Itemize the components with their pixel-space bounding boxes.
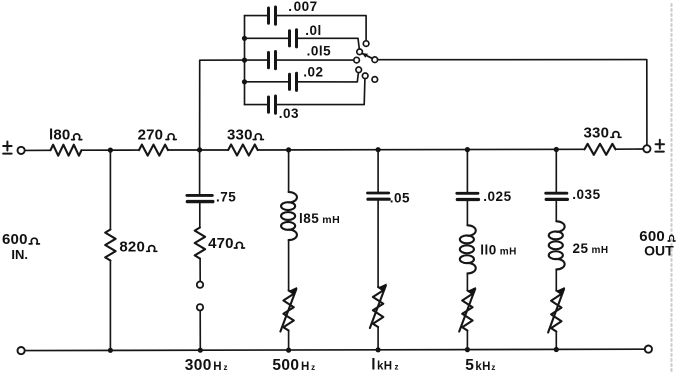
- capacitor .05: [368, 193, 390, 199]
- output terminal (hot): [643, 145, 650, 152]
- switch contact 1 (.007): [363, 41, 369, 47]
- switch contact 3 (.015): [354, 57, 360, 63]
- wire rheostat to bottom bus: [555, 332, 557, 350]
- junction bottom bus / .035: [554, 347, 559, 352]
- wire node B up to capacitor bank (.015 row): [200, 60, 245, 150]
- label 820Ω: [119, 238, 156, 255]
- resistor 820Ω: [105, 230, 115, 261]
- svg-text:.02: .02: [303, 65, 323, 80]
- wire node C down to L185: [288, 150, 290, 192]
- inductor 25mH: [549, 221, 565, 269]
- wire rheostat to bottom bus: [377, 327, 379, 350]
- wire R820 to bottom bus: [109, 261, 111, 351]
- svg-text:l80: l80: [49, 127, 70, 144]
- wire C.05 to rheostat: [377, 199, 379, 287]
- resistor 330Ω (series): [228, 145, 258, 156]
- svg-text:.035: .035: [572, 187, 600, 202]
- wire .01 row left: [245, 37, 289, 39]
- wire bottom bus: [25, 349, 645, 350]
- junction node C (500Hz tap): [286, 147, 291, 152]
- junction bottom bus / 500Hz: [286, 348, 291, 353]
- wire C.75 to R470: [199, 202, 201, 228]
- wire .03 row left: [245, 104, 268, 106]
- wire switch pole to output terminal (top bypass): [378, 60, 647, 146]
- junction node E (5kHz tap): [465, 147, 470, 152]
- switch pole: [372, 57, 378, 63]
- wire rheostat to bottom bus: [288, 331, 290, 351]
- switch contact 2 (.01): [357, 49, 363, 55]
- rheostat (5kHz): [459, 287, 476, 332]
- resistor 180Ω: [51, 145, 82, 156]
- svg-text:330: 330: [227, 127, 253, 144]
- label 330Ω (series): [227, 127, 263, 144]
- inductor 185mH: [281, 192, 297, 240]
- wire L25 to rheostat: [555, 269, 557, 290]
- junction node F (.035 tap): [554, 147, 559, 152]
- open jack lower (300Hz): [197, 304, 203, 310]
- svg-text:.03: .03: [279, 106, 299, 121]
- open jack upper (300Hz): [197, 282, 203, 288]
- wire .01 row right, down to switch contact 2: [298, 38, 360, 49]
- svg-text:IN.: IN.: [11, 247, 28, 262]
- svg-text:.0l: .0l: [305, 23, 322, 38]
- svg-text:600: 600: [2, 231, 28, 248]
- label 600Ω IN: [2, 231, 28, 262]
- capacitor .015: [269, 52, 276, 69]
- capacitor .75: [187, 195, 213, 201]
- resistor 470Ω: [195, 228, 205, 259]
- svg-text:470: 470: [208, 235, 234, 252]
- switch contact 5 (.03): [362, 73, 368, 79]
- junction bank bus / .015 row: [242, 58, 247, 63]
- label 180Ω: [49, 127, 82, 144]
- svg-text:.0l5: .0l5: [307, 44, 332, 59]
- junction bottom bus / 820: [108, 348, 113, 353]
- svg-text:820: 820: [119, 238, 145, 255]
- wire R330 output to output terminal: [616, 148, 644, 150]
- label 470Ω: [208, 235, 244, 252]
- wire .02 row right, up to switch contact 4: [298, 73, 359, 82]
- wire L185 to rheostat: [288, 240, 290, 291]
- wire R180 to node A: [82, 149, 140, 151]
- resistor 270Ω: [139, 145, 168, 156]
- svg-text:OUT: OUT: [644, 242, 674, 258]
- wire C.025 to L110: [466, 200, 468, 226]
- resistor 330Ω (output): [585, 144, 616, 155]
- input terminal (common): [18, 347, 25, 354]
- svg-text:330: 330: [584, 124, 610, 141]
- junction node D (1kHz tap): [376, 147, 381, 152]
- wire node E down to C.025: [466, 150, 468, 194]
- junction bottom bus / 5kHz: [465, 347, 470, 352]
- junction bottom bus / 300Hz: [198, 348, 203, 353]
- wire .007 row left: [245, 15, 268, 17]
- rheostat (1kHz): [370, 283, 387, 328]
- wire .02 row left: [245, 81, 289, 83]
- wire lower jack to bottom bus: [199, 311, 201, 351]
- switch wiper arm with arrow: [362, 53, 372, 58]
- wire input terminal to R 180: [25, 149, 51, 151]
- rheostat (500Hz): [280, 287, 297, 332]
- polarity mark ± at input: [3, 142, 11, 154]
- label 330Ω (output): [584, 124, 622, 141]
- svg-text:270: 270: [138, 127, 164, 144]
- label 600Ω OUT: [639, 228, 674, 258]
- wire .015 row left: [245, 59, 268, 61]
- switch spare contact: [372, 77, 378, 83]
- capacitor .035: [546, 193, 568, 199]
- wire .015 row right to switch contact 3: [277, 59, 354, 61]
- label 270Ω: [138, 127, 177, 144]
- inductor 110mH: [460, 225, 476, 273]
- wire R270 to node B: [168, 149, 228, 151]
- input terminal (hot): [18, 147, 25, 154]
- junction node B (300Hz tap): [197, 147, 202, 152]
- wire top bus node C to R330 output: [258, 148, 585, 151]
- rheostat (.035 branch): [548, 287, 565, 333]
- junction bank bus / .01 row: [242, 36, 247, 41]
- wire node F down to C.035: [555, 150, 557, 194]
- wire node D down to C.05: [377, 150, 379, 193]
- wire .007 row right, down to switch contact 1: [277, 16, 367, 41]
- junction node A (820Ω tap): [108, 148, 113, 153]
- svg-text:.05: .05: [390, 191, 410, 206]
- wire .03 row right, up to switch contact 5: [277, 79, 365, 105]
- junction bank bus / .02 row: [242, 79, 247, 84]
- switch contact 4 (.02): [356, 67, 362, 73]
- svg-text:.025: .025: [483, 189, 511, 204]
- capacitor .03: [269, 96, 276, 113]
- capacitor .02: [290, 73, 297, 90]
- wire C.035 to L25: [555, 200, 557, 222]
- output terminal (common): [645, 346, 652, 353]
- svg-text:.75: .75: [216, 190, 236, 205]
- capacitor .025: [457, 193, 479, 199]
- junction bottom bus / 1kHz: [376, 347, 381, 352]
- capacitor .007: [269, 7, 276, 24]
- wire node B down to C.75: [199, 150, 201, 195]
- capacitor .01: [290, 30, 297, 47]
- wire node A down to R820: [109, 150, 111, 229]
- wire R470 to upper jack: [199, 259, 201, 282]
- wire rheostat to bottom bus: [466, 331, 468, 350]
- wire capacitor bank left bus: [244, 16, 246, 105]
- wire L110 to rheostat: [466, 273, 468, 290]
- polarity mark ± at output: [655, 140, 664, 152]
